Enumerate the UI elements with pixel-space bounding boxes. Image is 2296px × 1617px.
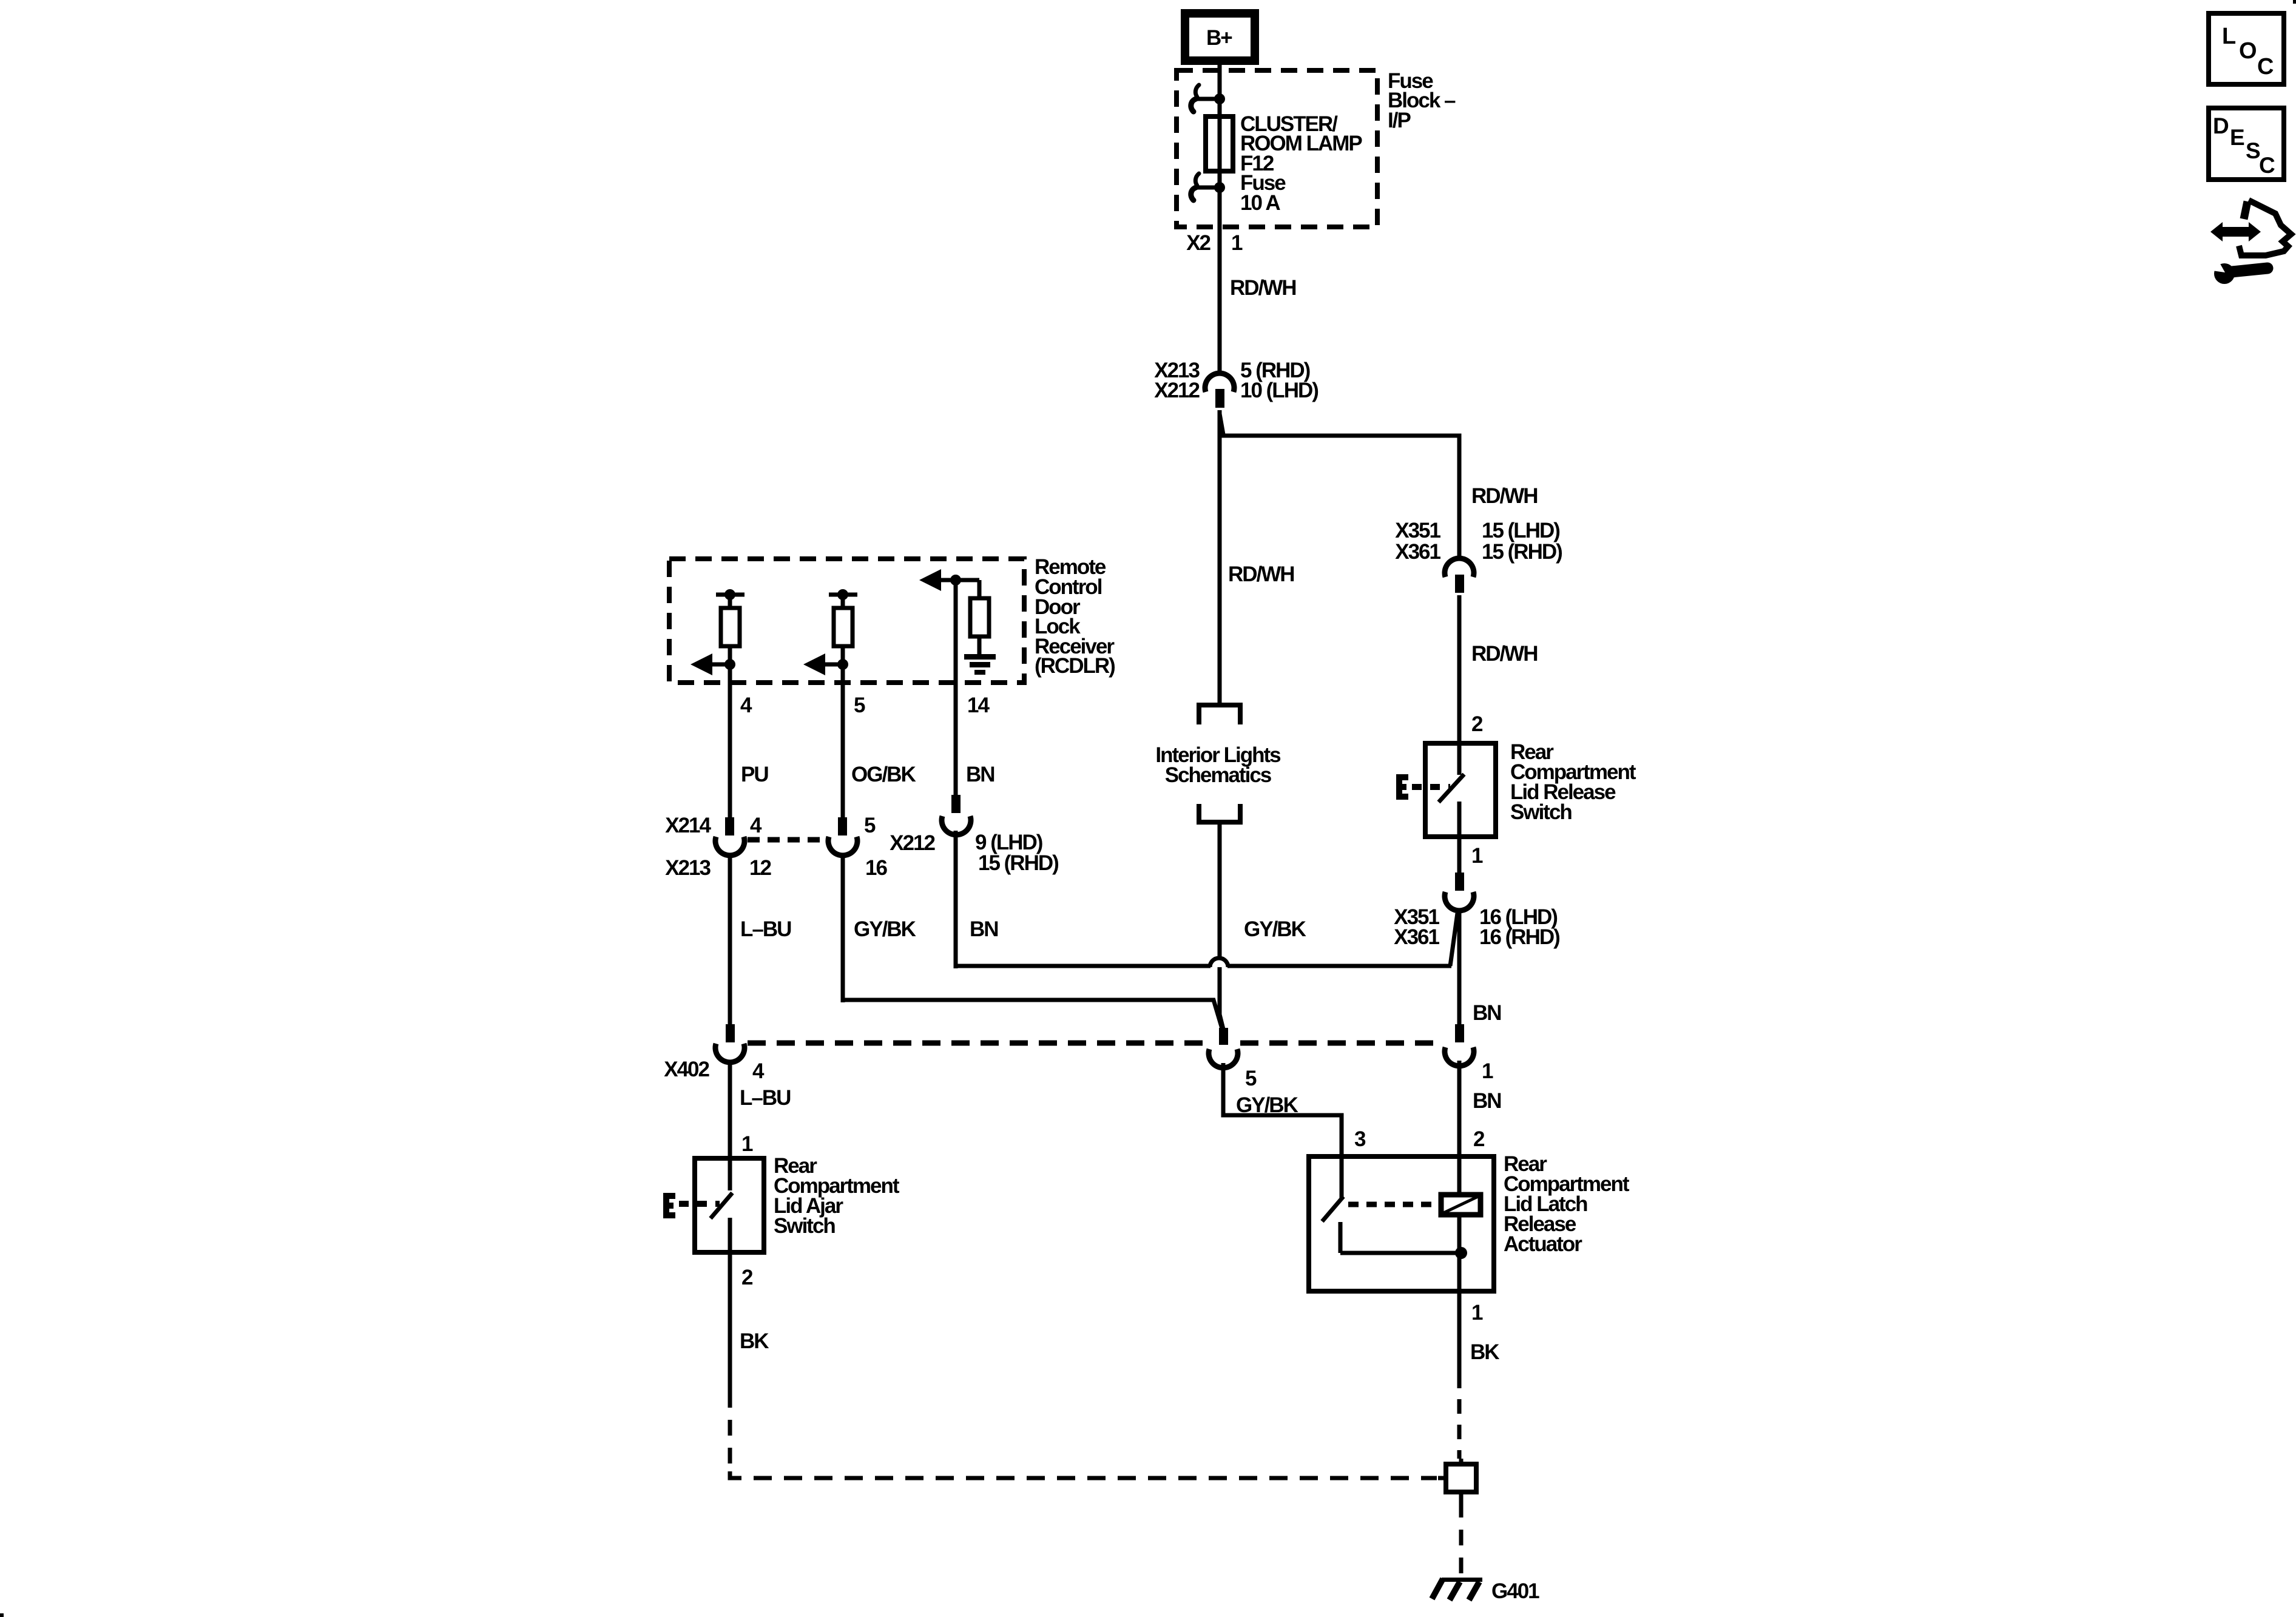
wire switch pin1 to connector [1457, 837, 1462, 874]
page corner speck bottom-left [0, 1613, 4, 1617]
wire BK dashed to splice box [1457, 1374, 1462, 1459]
RCDLR antenna input arrow pin14 [919, 569, 979, 591]
svg-text:X212: X212 [1154, 379, 1200, 402]
svg-text:RD/WH: RD/WH [1471, 484, 1538, 508]
svg-text:RD/WH: RD/WH [1230, 276, 1296, 300]
wire labels L-BU GY/BK BN row2 [740, 917, 998, 941]
rear compartment lid ajar switch SW2 [695, 1158, 764, 1252]
wire BK dashed bottom run to splice [730, 1471, 1437, 1478]
actuator pin labels 3 2 1 [1354, 1127, 1485, 1325]
svg-text:1: 1 [741, 1132, 753, 1156]
wire BK from actuator pin1 [1457, 1291, 1462, 1374]
RCDLR internal resistor R1 [716, 589, 745, 664]
labels X402 pin 4 [664, 1058, 765, 1083]
label Remote Control Door Lock Receiver (RCDLR) [1035, 555, 1115, 678]
svg-text:X214: X214 [665, 814, 711, 837]
svg-text:C: C [2257, 54, 2274, 79]
svg-text:BN: BN [1473, 1001, 1501, 1025]
wire branch diagonal to right feed [1220, 414, 1223, 434]
svg-text:1: 1 [1471, 1301, 1483, 1325]
fuse F12 [1206, 99, 1233, 187]
connector X402 pin 5 [1209, 1028, 1238, 1068]
wire BN left vertical [954, 831, 958, 968]
pin labels 4 5 14 [740, 694, 990, 717]
RCDLR output arrow pin5 [803, 653, 848, 675]
svg-text:Switch: Switch [1510, 800, 1572, 824]
svg-text:RD/WH: RD/WH [1228, 562, 1294, 586]
wire dashed to ground [1459, 1502, 1464, 1578]
svg-text:X2: X2 [1186, 231, 1210, 255]
svg-text:2: 2 [741, 1266, 753, 1289]
wire jump bump over BN run [1210, 958, 1228, 967]
ajar switch E actuator symbol [666, 1196, 720, 1215]
wire GY/BK from interior lights [1218, 822, 1222, 958]
wire BN vertical to X402 pin1 [1457, 909, 1462, 1024]
svg-text:OG/BK: OG/BK [851, 763, 916, 786]
fuse clip upper terminal [1191, 85, 1225, 112]
svg-text:4: 4 [750, 814, 762, 837]
svg-text:1: 1 [1482, 1059, 1493, 1083]
svg-text:14: 14 [967, 694, 990, 717]
svg-text:RD/WH: RD/WH [1471, 642, 1538, 666]
svg-text:Schematics: Schematics [1165, 763, 1272, 787]
svg-text:4: 4 [752, 1059, 765, 1083]
svg-text:16: 16 [865, 856, 887, 880]
battery feed B+ [1185, 13, 1255, 61]
wire BN horizontal run [956, 964, 1451, 968]
svg-text:L: L [2222, 24, 2236, 49]
ground G401 [1432, 1578, 1482, 1600]
svg-text:Actuator: Actuator [1504, 1232, 1582, 1256]
connector X213/X212 [1205, 373, 1234, 408]
label Rear Compartment Lid Release Switch [1510, 740, 1636, 824]
wire labels PU OG/BK BN [741, 763, 994, 786]
wire GY/BK below bump to X402 pin5 [1220, 967, 1223, 1029]
svg-text:L–BU: L–BU [740, 1086, 791, 1110]
connector X402 pin 4 [715, 1024, 745, 1062]
RCDLR internal resistor R2 [829, 589, 857, 664]
wire BK dashed down [728, 1392, 732, 1471]
wire PU [728, 664, 732, 819]
svg-text:2: 2 [1473, 1127, 1485, 1151]
svg-text:15 (RHD): 15 (RHD) [978, 851, 1058, 875]
fuse block I/P dashed box [1177, 70, 1377, 227]
wire diagonal from BN horizontal run [1450, 913, 1457, 966]
svg-text:5: 5 [864, 814, 876, 837]
svg-text:10 (LHD): 10 (LHD) [1240, 379, 1318, 402]
svg-text:S: S [2246, 138, 2261, 163]
splice/junction box [1438, 1459, 1476, 1502]
page corner speck top-right [2293, 0, 2296, 4]
svg-text:BK: BK [740, 1329, 769, 1353]
wire GY/BK horizontal run [845, 1000, 1222, 1028]
svg-text:I/P: I/P [1388, 109, 1411, 132]
label X2 pin 1 [1186, 231, 1243, 255]
actuator solenoid coil [1441, 1195, 1481, 1215]
svg-text:15 (LHD): 15 (LHD) [1482, 519, 1559, 542]
service icon arrow wrench [2208, 200, 2291, 284]
wire GY/BK left vertical [841, 854, 845, 1002]
svg-text:1: 1 [1471, 844, 1483, 868]
svg-text:BK: BK [1470, 1340, 1499, 1364]
svg-text:X361: X361 [1395, 540, 1440, 564]
fuse clip lower terminal [1191, 174, 1225, 200]
rear compartment lid release switch SW1 [1425, 743, 1496, 837]
DESC legend box [2209, 108, 2284, 180]
svg-text:(RCDLR): (RCDLR) [1035, 654, 1115, 678]
svg-text:15 (RHD): 15 (RHD) [1482, 540, 1562, 564]
wire X402 to actuator pin2 [1457, 1061, 1462, 1156]
svg-text:5: 5 [854, 694, 865, 717]
svg-text:X213: X213 [665, 856, 711, 880]
svg-text:E: E [2230, 125, 2245, 150]
svg-text:G401: G401 [1491, 1579, 1539, 1603]
RCDLR output arrow pin4 [690, 653, 735, 675]
label Fuse Block - I/P [1388, 69, 1456, 132]
connector labels X214 X213 X212 [665, 814, 1058, 880]
label Rear Compartment Lid Ajar Switch [774, 1154, 900, 1238]
interior lights schematics off-page top bracket [1199, 705, 1240, 724]
connector X351/X361 pin 15 [1445, 558, 1474, 593]
svg-text:12: 12 [749, 856, 771, 880]
svg-text:X361: X361 [1394, 925, 1439, 949]
wire BK from ajar switch [728, 1252, 732, 1392]
svg-text:3: 3 [1354, 1127, 1366, 1151]
svg-text:GY/BK: GY/BK [854, 917, 916, 941]
label Rear Compartment Lid Latch Release Actuator [1504, 1152, 1630, 1256]
label X213/X212 connector pins [1154, 359, 1318, 402]
svg-text:O: O [2239, 38, 2257, 64]
rear compartment lid latch release actuator M1 [1309, 1156, 1494, 1291]
connector X214/X213 pin 4/12 [715, 817, 745, 856]
label X351/X361 connector 16 [1394, 905, 1559, 949]
wire RCDLR pin14 vertical [954, 580, 958, 796]
wire B+ to fuse block [1218, 61, 1222, 99]
svg-text:10 A: 10 A [1240, 191, 1280, 215]
svg-text:B+: B+ [1206, 26, 1232, 50]
interior lights schematics off-page bottom bracket [1199, 804, 1240, 822]
svg-text:1: 1 [1231, 231, 1243, 255]
svg-text:D: D [2213, 113, 2229, 138]
actuator internal dashed link [1348, 1202, 1437, 1207]
fuse label CLUSTER/ROOM LAMP F12 Fuse 10 A [1240, 112, 1362, 215]
wire X402 to ajar switch [728, 1061, 732, 1158]
svg-text:4: 4 [740, 694, 752, 717]
dashed link between X213 connectors [748, 837, 828, 843]
label Interior Lights Schematics [1155, 743, 1281, 787]
connector X214/X213 pin 5/16 [828, 817, 857, 856]
wire L-BU [728, 854, 732, 1025]
svg-text:Switch: Switch [774, 1214, 835, 1238]
svg-text:BN: BN [1473, 1089, 1501, 1113]
connector X212 pin 9/15 [942, 795, 971, 835]
svg-text:C: C [2259, 153, 2275, 178]
wire fuse block output [1218, 187, 1222, 374]
RCDLR module dashed box [669, 559, 1024, 683]
LOC legend box [2209, 13, 2284, 84]
RCDLR internal ground [964, 654, 996, 675]
svg-text:GY/BK: GY/BK [1244, 917, 1306, 941]
svg-text:L–BU: L–BU [740, 917, 791, 941]
svg-text:BN: BN [970, 917, 998, 941]
wire X402 pin5 to actuator pin3 [1223, 1063, 1342, 1156]
svg-text:5: 5 [1245, 1067, 1257, 1090]
svg-text:BN: BN [966, 763, 994, 786]
label X351/X361 connector 15 [1395, 519, 1562, 564]
RCDLR internal resistor R3 to ground [970, 580, 989, 654]
svg-text:PU: PU [741, 763, 768, 786]
connector X351/X361 pin 16 [1445, 873, 1474, 911]
svg-text:2: 2 [1471, 712, 1483, 736]
wire branch right at y718 [1221, 436, 1459, 560]
connector X402 dashed harness line [748, 1041, 1443, 1046]
connector X402 pin 1 [1445, 1024, 1474, 1066]
wire OG/BK upper [841, 664, 845, 819]
svg-text:X351: X351 [1395, 519, 1440, 542]
svg-text:X402: X402 [664, 1058, 709, 1081]
svg-text:X212: X212 [890, 831, 935, 855]
svg-text:16 (RHD): 16 (RHD) [1479, 925, 1559, 949]
wire trunk down to interior lights [1218, 410, 1222, 705]
switch E actuator symbol [1399, 777, 1450, 797]
wire to release switch [1457, 595, 1462, 743]
